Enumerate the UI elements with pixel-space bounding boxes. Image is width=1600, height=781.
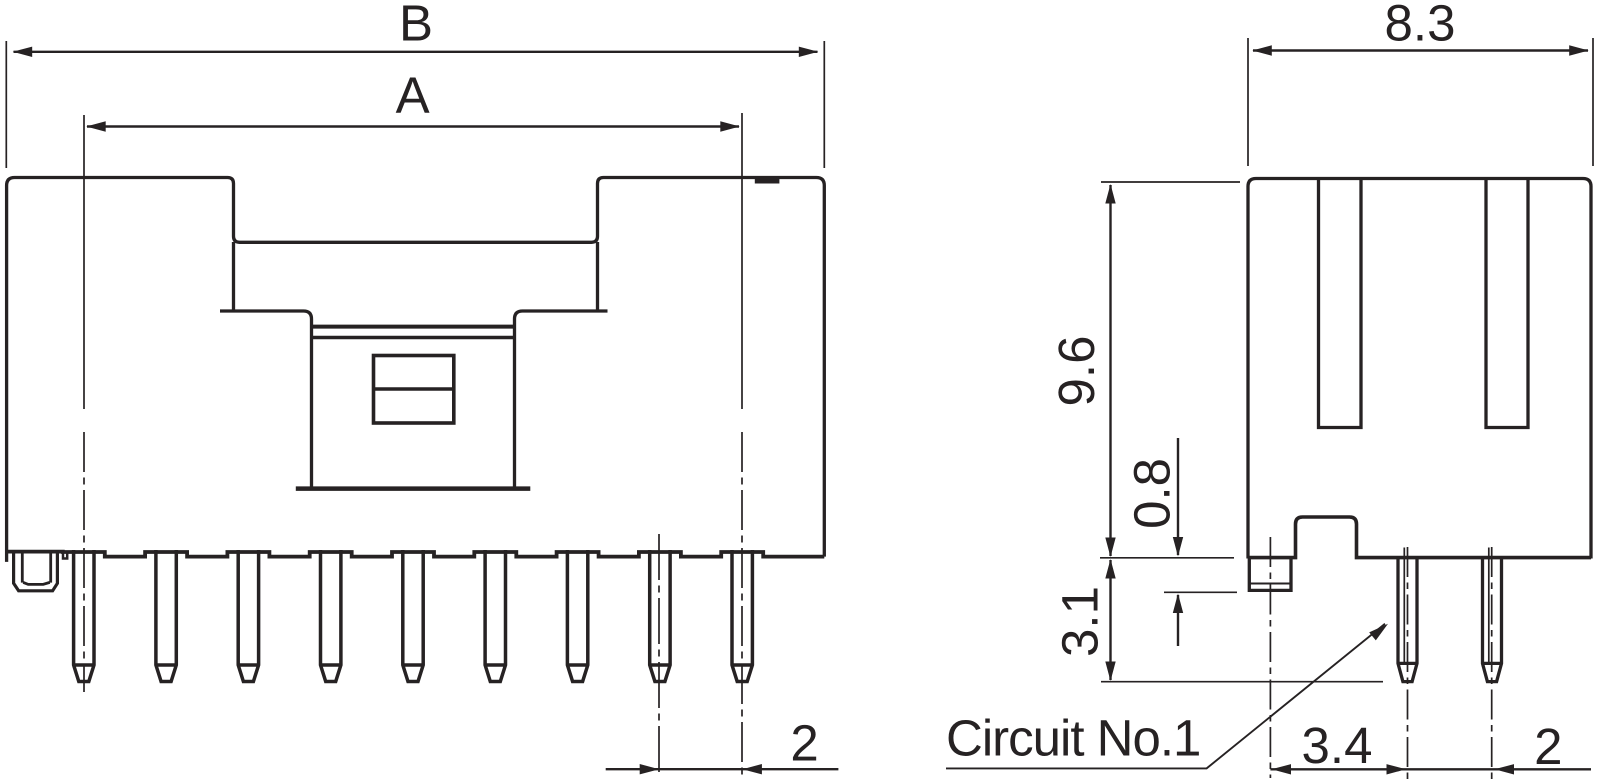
dimension 9.6 arrowhead bottom bbox=[1105, 538, 1115, 558]
recess inner wall left bbox=[232, 242, 235, 311]
dimension A line bbox=[87, 125, 739, 127]
pin 7 bbox=[567, 550, 587, 682]
svg-text:A: A bbox=[396, 67, 430, 124]
pin 5 bbox=[403, 550, 423, 682]
Circuit No.1 leader arrowhead bbox=[1369, 624, 1388, 641]
pin 2 bbox=[156, 550, 176, 682]
side view pin A bbox=[1398, 556, 1417, 682]
dimension 8.3 arrowhead right bbox=[1569, 45, 1589, 55]
dimension 8.3 arrowhead left bbox=[1252, 45, 1272, 55]
dimension 3.1 arrowhead top bbox=[1105, 559, 1115, 579]
pedestal base line bbox=[296, 486, 531, 491]
dimension 0.8 lower tail line bbox=[1177, 595, 1179, 646]
dimension 3.4 line bbox=[1270, 768, 1407, 770]
dimension 9.6 top reference line bbox=[1101, 181, 1240, 183]
svg-text:2: 2 bbox=[1534, 718, 1562, 775]
side view polarity boss inner line bbox=[1249, 583, 1291, 585]
dimension 0.8 arrowhead lower (pointing up) bbox=[1173, 594, 1183, 614]
pin 1 bbox=[74, 550, 94, 682]
dimension B extension line right bbox=[823, 41, 825, 168]
side view polarity boss bbox=[1249, 556, 1291, 590]
svg-text:3.4: 3.4 bbox=[1302, 717, 1373, 774]
dimension 9.6 arrowhead top bbox=[1105, 184, 1115, 204]
svg-text:3.1: 3.1 bbox=[1052, 586, 1109, 657]
side view pin B bbox=[1483, 556, 1502, 682]
polarity boss front view inner contour bbox=[22, 551, 50, 584]
pin 8 bbox=[650, 550, 670, 682]
dimension 3.1 arrowhead bottom bbox=[1105, 662, 1115, 682]
front view connector body outline with top recess and notched bottom edge bbox=[7, 178, 825, 562]
dimension 8.3 extension line right bbox=[1592, 38, 1594, 166]
inner ledge right bbox=[515, 311, 608, 489]
tongue top double line upper bbox=[312, 325, 515, 329]
dimension 3.4 arrowhead left bbox=[1272, 764, 1292, 774]
dimension 0.8 arrowhead upper (pointing down) bbox=[1173, 537, 1183, 557]
dimension 3.4 arrowhead right bbox=[1387, 764, 1407, 774]
svg-text:Circuit No.1: Circuit No.1 bbox=[946, 710, 1200, 767]
svg-text:9.6: 9.6 bbox=[1048, 336, 1105, 407]
side view bottom edge with cutout bbox=[1248, 517, 1591, 558]
dimension 2 (front) arrowhead left bbox=[640, 764, 660, 774]
pin 1 centerline / dimension A extension left bbox=[83, 115, 85, 409]
polarity mark (filled bar at top right of front view) bbox=[755, 176, 780, 184]
dimension 2 (side) arrowhead (pointing left at pin B centerline) bbox=[1495, 764, 1515, 774]
svg-text:0.8: 0.8 bbox=[1123, 458, 1180, 529]
dimension 9.6 bottom reference line bbox=[1100, 557, 1234, 559]
dimension 8.3 line bbox=[1253, 49, 1588, 51]
side view body outline with bottom cutout bbox=[1248, 179, 1591, 559]
pin 9 centerline / dimension A extension right bbox=[741, 113, 743, 409]
pin 3 bbox=[238, 550, 258, 682]
tongue top double line lower bbox=[312, 336, 515, 340]
dimension 3.1 line bbox=[1109, 560, 1111, 680]
svg-text:B: B bbox=[399, 0, 433, 52]
dimension 9.6 line bbox=[1109, 185, 1111, 556]
dimension 3.1 bottom reference line (pin tip level) bbox=[1101, 681, 1383, 683]
inner ledge left bbox=[220, 311, 312, 489]
dimension B extension line left bbox=[5, 41, 7, 168]
dimension B line bbox=[14, 51, 818, 53]
side view slot 1 bbox=[1319, 177, 1362, 428]
latch window frame bbox=[374, 356, 454, 424]
dimension 0.8 reference line (boss bottom level) bbox=[1164, 591, 1237, 593]
dimension A arrowhead right bbox=[720, 121, 740, 131]
svg-text:8.3: 8.3 bbox=[1385, 0, 1456, 52]
dimension 8.3 extension line left bbox=[1247, 38, 1249, 166]
latch window divider bbox=[374, 387, 454, 391]
dimension 2 (side) line bbox=[1408, 768, 1592, 770]
svg-text:2: 2 bbox=[790, 715, 818, 772]
side view boss centerline bbox=[1269, 537, 1271, 778]
Circuit No.1 leader line bbox=[946, 624, 1385, 769]
pin 9 bbox=[732, 550, 752, 682]
side view pin A inner edge line bbox=[1403, 548, 1405, 664]
recess inner wall right bbox=[596, 242, 599, 311]
side view slot 2 bbox=[1486, 177, 1528, 428]
dimension 0.8 upper tail line bbox=[1177, 438, 1179, 555]
pin 6 bbox=[485, 550, 505, 682]
pin 4 bbox=[321, 550, 341, 682]
dimension B arrowhead left bbox=[13, 47, 33, 57]
front view bottom edge with pin notches bbox=[7, 552, 825, 557]
side view pin A centerline bbox=[1407, 547, 1409, 781]
side view pin B inner edge line bbox=[1488, 548, 1490, 664]
dimension B arrowhead right bbox=[799, 47, 819, 57]
pin 8 centerline bbox=[658, 534, 660, 777]
dimension A arrowhead left bbox=[86, 121, 106, 131]
polarity boss front view outer contour bbox=[14, 551, 58, 591]
dimension 2 (front) line bbox=[606, 768, 839, 770]
step tab between boss and pin 1 bbox=[63, 552, 67, 559]
dimension 2 (front) arrowhead right bbox=[742, 764, 762, 774]
side view pin B centerline bbox=[1491, 547, 1493, 781]
